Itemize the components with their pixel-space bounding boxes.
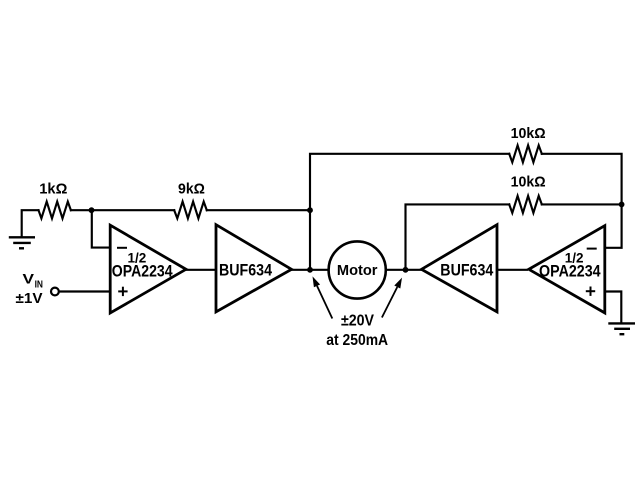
wire: A1 output to motor left terminal [292,269,329,271]
junction node A (1k/9k/U1 inverting) [89,207,95,213]
op-amp U1 plus pin mark [118,287,127,296]
wire: node A down to U1 inverting input [92,210,111,247]
wire: A2 output to U2 input [497,269,527,271]
svg-text:±20V: ±20V [341,312,375,329]
svg-text:10kΩ: 10kΩ [511,125,546,142]
junction node C (10k/10k/U2 inverting) [619,202,625,208]
svg-text:OPA2234: OPA2234 [112,262,173,280]
op-amp U2 plus pin mark [586,287,595,296]
svg-text:10kΩ: 10kΩ [511,174,546,191]
resistor R3 10kOhm zigzag [509,145,542,162]
svg-text:IN: IN [35,280,43,291]
buffer A1 BUF634 triangle [216,225,292,312]
annotation arrow to motor left terminal [313,276,333,318]
wire: VIN terminal to U1 non-inverting input [60,290,111,292]
wire: 10k R3 right lead to right feedback vertical [542,154,622,205]
junction node: motor left terminal [307,267,313,273]
annotation arrow to motor right terminal [382,278,402,318]
junction node B (9k to top rail) [307,207,313,213]
wire: U2 non-inverting input to right ground [605,292,622,324]
input terminal VIN open circle [51,288,59,296]
wire: motor right node up to 10k R4 left lead [406,204,510,269]
wire: 1k resistor to node A and on to 9k resistor [71,209,174,211]
wire: ground stem to 1k resistor left lead [22,210,39,237]
svg-text:±1V: ±1V [16,290,43,307]
buffer A2 BUF634 triangle (mirrored) [422,225,498,312]
resistor R 1kOhm zigzag [39,202,71,219]
op-amp U1 minus pin mark [117,247,127,249]
svg-text:BUF634: BUF634 [219,262,273,280]
svg-text:Motor: Motor [337,262,378,279]
ground symbol right [608,323,635,334]
motor M1 circle [329,241,386,298]
svg-text:at 250mA: at 250mA [326,332,388,349]
svg-text:BUF634: BUF634 [440,262,494,280]
op-amp U2 minus pin mark [587,248,597,250]
wire: 9k resistor right lead to node B vertical [207,209,310,211]
resistor R4 10kOhm zigzag [509,196,542,213]
resistor R 9kOhm zigzag [174,202,207,219]
svg-text:V: V [23,270,35,286]
wire: node C down to U2 inverting input [605,204,622,247]
svg-text:1kΩ: 1kΩ [39,180,67,197]
wire: 10k R4 right lead to node C [542,203,622,205]
svg-text:9kΩ: 9kΩ [178,180,205,197]
op-amp U2 1/2 OPA2234 triangle (mirrored) [529,226,605,313]
op-amp U1 1/2 OPA2234 triangle [110,225,186,313]
wire: motor right terminal to A2 input [386,269,422,271]
wire: motor left node up and right along top feedback rail to 10k R3 [310,154,509,270]
ground symbol left [9,237,35,248]
junction node: motor right terminal [403,267,409,273]
wire: U1 output to A1 input [186,269,216,271]
svg-text:OPA2234: OPA2234 [539,262,601,280]
